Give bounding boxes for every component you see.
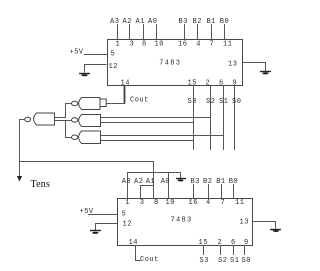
wire ground rail for U2 A3/A0 [128,173,181,199]
wire U1 pin 12 to ground [85,65,107,73]
wire U2 input stub B3 [193,184,195,198]
svg-text:S0: S0 [232,98,241,106]
svg-text:10: 10 [166,199,175,207]
wire U2 input stub B0 [233,184,235,198]
svg-text:S0: S0 [242,257,251,265]
svg-text:5: 5 [122,211,127,219]
svg-text:Tens: Tens [31,179,51,190]
svg-text:S3: S3 [188,98,197,106]
svg-text:7: 7 [221,199,226,207]
svg-text:S3: S3 [200,257,209,265]
svg-text:1: 1 [125,199,130,207]
wire +5V to U2 pin 5 [88,214,118,216]
wire G4 input stub top [54,117,66,119]
svg-text:4: 4 [206,199,211,207]
NAND gate G1 (inverter on Cout) [72,98,107,110]
svg-text:4: 4 [196,41,201,49]
wire U1 pin 14 carry out stub [124,86,126,104]
ground (U2 pin 12) [90,231,101,234]
wire G2 input to S2 [101,117,212,119]
svg-text:B3: B3 [179,18,188,26]
wire U2 pin 13 to ground [253,222,276,229]
svg-text:A2: A2 [123,18,132,26]
svg-text:A2: A2 [134,178,143,186]
svg-text:A0: A0 [148,18,157,26]
svg-text:12: 12 [109,63,118,71]
wire U1 input stub B2 [197,24,199,39]
wire U2 sum stub pin 15 [203,245,205,255]
svg-text:15: 15 [188,80,197,88]
svg-text:2: 2 [218,239,223,247]
wire U1 input stub B1 [211,24,213,39]
wire U2 sum stub pin 2 [220,245,222,255]
ground (U2 A3/A0 rail) [176,179,186,182]
svg-text:3: 3 [140,199,145,207]
svg-text:8: 8 [154,199,159,207]
svg-text:7483: 7483 [171,217,193,225]
wire G3 input to S3 [101,140,195,142]
wire U2 input stub B1 [221,184,223,198]
svg-text:B1: B1 [216,178,225,186]
wire U2 A0 stub to ground rail [168,172,170,198]
wire sum S0 vertical from U1 pin 9 [234,86,236,150]
wire U1 input stub A2 [129,24,131,39]
svg-text:B2: B2 [203,178,212,186]
wire U1 input stub B3 [184,24,186,39]
wire U1 input stub A1 [143,24,145,39]
svg-text:2: 2 [206,80,211,88]
svg-text:14: 14 [129,239,138,247]
wire U1 pin 13 to ground [243,63,266,72]
svg-text:Cout: Cout [140,256,159,264]
wire U2 pin 14 carry out stub [136,246,141,261]
svg-text:16: 16 [178,41,187,49]
wire sum S2 vertical from U1 pin 2 [210,86,212,150]
wire sum S1 vertical from U1 pin 6 [223,86,225,150]
wire G4 output to Tens vertical [19,119,25,121]
svg-text:A3: A3 [122,178,131,186]
NAND gate G3 (S3.S1) [72,131,101,144]
svg-text:10: 10 [155,41,164,49]
wire staple to U2 pin3 A2 [141,186,154,199]
svg-text:S2: S2 [218,257,227,265]
wire U2 pin 12 to ground [96,224,118,231]
wire U2 input stub B2 [208,184,210,198]
ground (U2 pin 13) [270,230,281,232]
svg-text:1: 1 [116,41,121,49]
svg-text:5: 5 [111,51,116,59]
svg-text:7: 7 [210,41,215,49]
svg-text:16: 16 [189,199,198,207]
wire Tens vertical [19,119,21,177]
wire Tens branch to U2 A2/A1 [20,162,154,186]
Tens arrowhead [17,176,22,182]
svg-text:+5V: +5V [70,49,84,57]
wire G3 output up to G4 input [66,121,72,138]
svg-text:11: 11 [235,199,244,207]
svg-text:B0: B0 [229,178,238,186]
wire U2 sum stub pin 9 [244,245,246,255]
wire G3 input to S1 [101,135,225,137]
svg-text:13: 13 [228,61,237,69]
NAND gate G2 (S3.S2) [72,115,101,127]
wire G1 output down to G4 input [66,104,72,118]
ground (U1 pin 13) [260,72,271,75]
svg-text:S2: S2 [206,98,215,106]
svg-text:3: 3 [130,41,135,49]
wire G1 inputs to Cout node [106,103,125,105]
svg-text:S1: S1 [230,257,239,265]
svg-text:B3: B3 [191,178,200,186]
wire U2 sum stub pin 6 [233,245,235,255]
wire to U2 pin8 A1 [153,185,155,198]
svg-text:8: 8 [142,41,147,49]
svg-text:13: 13 [240,219,249,227]
svg-text:12: 12 [123,221,132,229]
svg-text:11: 11 [223,41,232,49]
wire G2 input to S3 [101,122,195,124]
NAND gate G4 (3-input, output Tens) [25,113,55,125]
svg-text:6: 6 [219,80,224,88]
wire U1 input stub B0 [224,24,226,39]
IC U2 7483 body [118,199,253,246]
IC U1 7483 body [108,40,243,86]
wire U1 input stub A0 [156,24,158,39]
wire +5V to U1 pin 5 [84,54,107,56]
wire sum S3 vertical from U1 pin 15 [193,86,195,150]
svg-text:7483: 7483 [159,60,181,68]
ground (U1 pin 12) [79,74,90,77]
svg-text:S1: S1 [219,98,228,106]
wire G4 input stub middle from G2 output [54,120,72,122]
svg-text:A1: A1 [146,178,155,186]
svg-text:Cout: Cout [130,97,149,105]
wire U1 input stub A3 [117,24,119,39]
svg-text:A0: A0 [161,178,170,186]
